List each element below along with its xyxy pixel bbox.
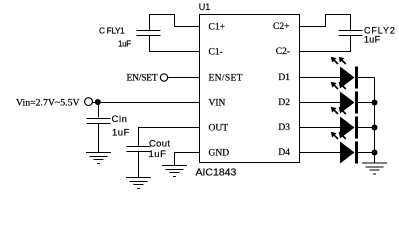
svg-text:1uF: 1uF	[112, 128, 130, 139]
wire cathode rail	[374, 78, 376, 164]
svg-text:VIN: VIN	[209, 99, 226, 109]
junction node rail D4	[372, 150, 378, 156]
wire Cin to ground	[98, 124, 100, 152]
svg-text:EN/SET: EN/SET	[209, 74, 243, 84]
wire Cin branch	[98, 103, 100, 118]
wire Cout to ground	[138, 152, 140, 178]
svg-text:EN/SET: EN/SET	[127, 74, 158, 84]
wire CFLY2 to C2-	[300, 36, 351, 52]
wire C1+ staircase	[150, 15, 200, 31]
svg-text:D1: D1	[278, 73, 290, 83]
terminal circle EN/SET	[160, 74, 167, 81]
ground for GND pin	[162, 166, 187, 177]
svg-text:D3: D3	[278, 123, 290, 133]
junction node Vin	[95, 99, 101, 105]
svg-text:C FLY1: C FLY1	[99, 26, 125, 36]
junction node rail D3	[372, 125, 378, 131]
svg-text:1uF: 1uF	[364, 34, 381, 44]
capacitor CFLY1	[137, 31, 161, 36]
LED D2	[300, 82, 375, 114]
wire VIN	[92, 102, 199, 104]
LED D3	[300, 107, 375, 139]
capacitor CFLY2	[339, 31, 363, 36]
wire CFLY1 to C1-	[150, 36, 200, 52]
svg-text:U1: U1	[199, 2, 211, 12]
svg-text:GND: GND	[209, 149, 230, 159]
svg-text:1uF: 1uF	[149, 149, 167, 160]
ground for LED rail	[362, 163, 387, 174]
LED D4	[300, 132, 375, 164]
svg-text:AIC1843: AIC1843	[196, 166, 237, 178]
LED D1	[300, 57, 375, 89]
svg-text:C2+: C2+	[273, 22, 289, 32]
svg-text:D4: D4	[278, 148, 290, 158]
ground for Cout	[126, 178, 151, 189]
wire GND pin	[175, 153, 200, 166]
wire C2+ staircase	[300, 15, 351, 31]
svg-text:OUT: OUT	[209, 124, 229, 134]
svg-text:Cout: Cout	[149, 139, 170, 150]
capacitor Cout	[127, 147, 151, 152]
ground for Cin	[86, 153, 111, 164]
capacitor Cin	[87, 119, 111, 124]
wire OUT to Cout	[139, 128, 200, 147]
junction node rail D2	[372, 100, 378, 106]
IC U1 body	[200, 15, 300, 163]
svg-text:C1-: C1-	[209, 48, 223, 58]
svg-text:C1+: C1+	[209, 23, 225, 33]
svg-text:Cin: Cin	[112, 114, 128, 125]
svg-text:1uF: 1uF	[118, 40, 131, 49]
wire EN/SET	[168, 77, 200, 79]
svg-text:Vin=2.7V~5.5V: Vin=2.7V~5.5V	[16, 97, 80, 108]
svg-text:C2-: C2-	[276, 47, 290, 57]
svg-text:D2: D2	[278, 98, 290, 108]
terminal circle Vin	[85, 98, 93, 106]
